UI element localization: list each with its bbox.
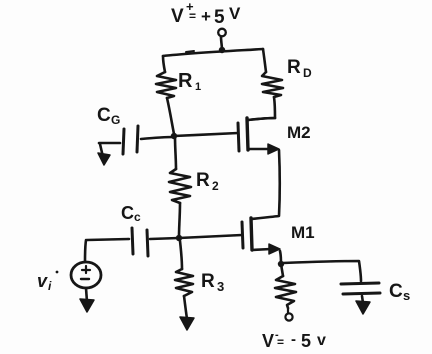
transistor M1 source lead with arrow [252,244,280,254]
capacitor CS plates [341,283,380,294]
svg-text:R: R [287,57,301,78]
svg-text:1: 1 [195,81,201,93]
svg-text:D: D [303,66,312,80]
svg-text:R: R [201,271,215,292]
wire RD to M2 drain [248,97,275,120]
label M1 [291,223,315,242]
wire node S to CS [283,261,361,281]
label CG [97,105,120,127]
label CS [389,281,410,303]
transistor M2 gate bar [238,123,239,151]
svg-text:V: V [229,4,241,23]
wire node G2 to M2 gate [174,133,238,136]
wire top rail [163,49,263,56]
svg-text:V: V [262,331,274,351]
svg-text:v: v [37,271,48,291]
transistor M1 gate bar [242,222,243,248]
transistor M2 channel bar [247,118,248,150]
capacitor CG plates [123,126,138,154]
svg-text:3: 3 [217,279,224,294]
ground arrow below R3 [180,296,194,330]
node G2 junction [171,133,177,139]
capacitor CG left wire [99,142,120,145]
ground arrow below CS [356,296,370,314]
wire M1 source to node S [280,251,281,264]
terminal circle VSS [285,308,292,321]
transistor M2 drain lead [248,118,275,120]
terminal circle VDD [218,29,226,37]
label R1 [178,70,201,93]
label CC [121,203,141,224]
capacitor CC right wire [150,238,179,239]
capacitor CC left wire [87,239,129,240]
label R2 [196,170,219,193]
wire node S to RS [281,264,283,276]
svg-text:C: C [97,105,111,126]
svg-text:M2: M2 [287,123,311,142]
resistor R1 [156,72,176,98]
svg-text:5: 5 [301,331,311,351]
transistor M2 source lead with arrow [248,144,279,154]
label V+ = +5V [171,0,241,28]
resistor R3 [175,269,193,296]
wire CC to source vi [85,240,86,261]
svg-text:2: 2 [212,179,219,193]
resistor RD [262,72,283,97]
svg-text:s: s [403,288,410,303]
transistor M1 channel bar [251,218,252,250]
svg-text:5: 5 [214,7,225,28]
svg-text:=: = [277,335,284,349]
resistor R2 [169,169,191,203]
label V- = -5V [262,329,326,351]
wire M2 source to M1 drain [252,150,280,219]
node G1 junction [176,235,182,241]
junction VDD rail [219,47,225,53]
svg-text:R: R [178,70,193,92]
ground arrow at CG [98,144,110,165]
svg-text:=: = [189,9,196,23]
svg-text:C: C [121,203,134,223]
svg-text:C: C [389,281,403,302]
label M2 [287,123,311,142]
label R3 [201,271,224,294]
resistor RS [275,276,296,308]
capacitor CC plates [132,228,148,256]
svg-text:c: c [134,210,141,224]
wire R1 to node G2 [167,98,174,134]
wire node G2 to R2 [175,137,176,169]
wire terminal to rail [221,37,222,50]
source vi circle [71,262,101,288]
svg-text:G: G [111,113,120,127]
svg-text:v: v [317,332,326,349]
capacitor CG right wire [141,137,174,139]
wire node G1 to M1 gate [179,235,242,238]
wire R2 to node G1 [179,203,180,236]
wire tick on rail [186,51,194,52]
svg-text:-: - [291,331,296,348]
svg-text:+: + [201,7,211,26]
wire rail to RD [263,49,266,72]
ground arrow below vi [80,288,94,312]
svg-text:V: V [171,6,184,27]
wire node G1 to R3 [180,241,182,269]
svg-text:i: i [48,279,52,293]
label vi [37,271,58,293]
label RD [287,57,312,80]
wire rail to R1 [163,56,165,72]
svg-text:R: R [196,170,210,191]
svg-text:M1: M1 [291,223,315,242]
node S junction [278,261,284,267]
